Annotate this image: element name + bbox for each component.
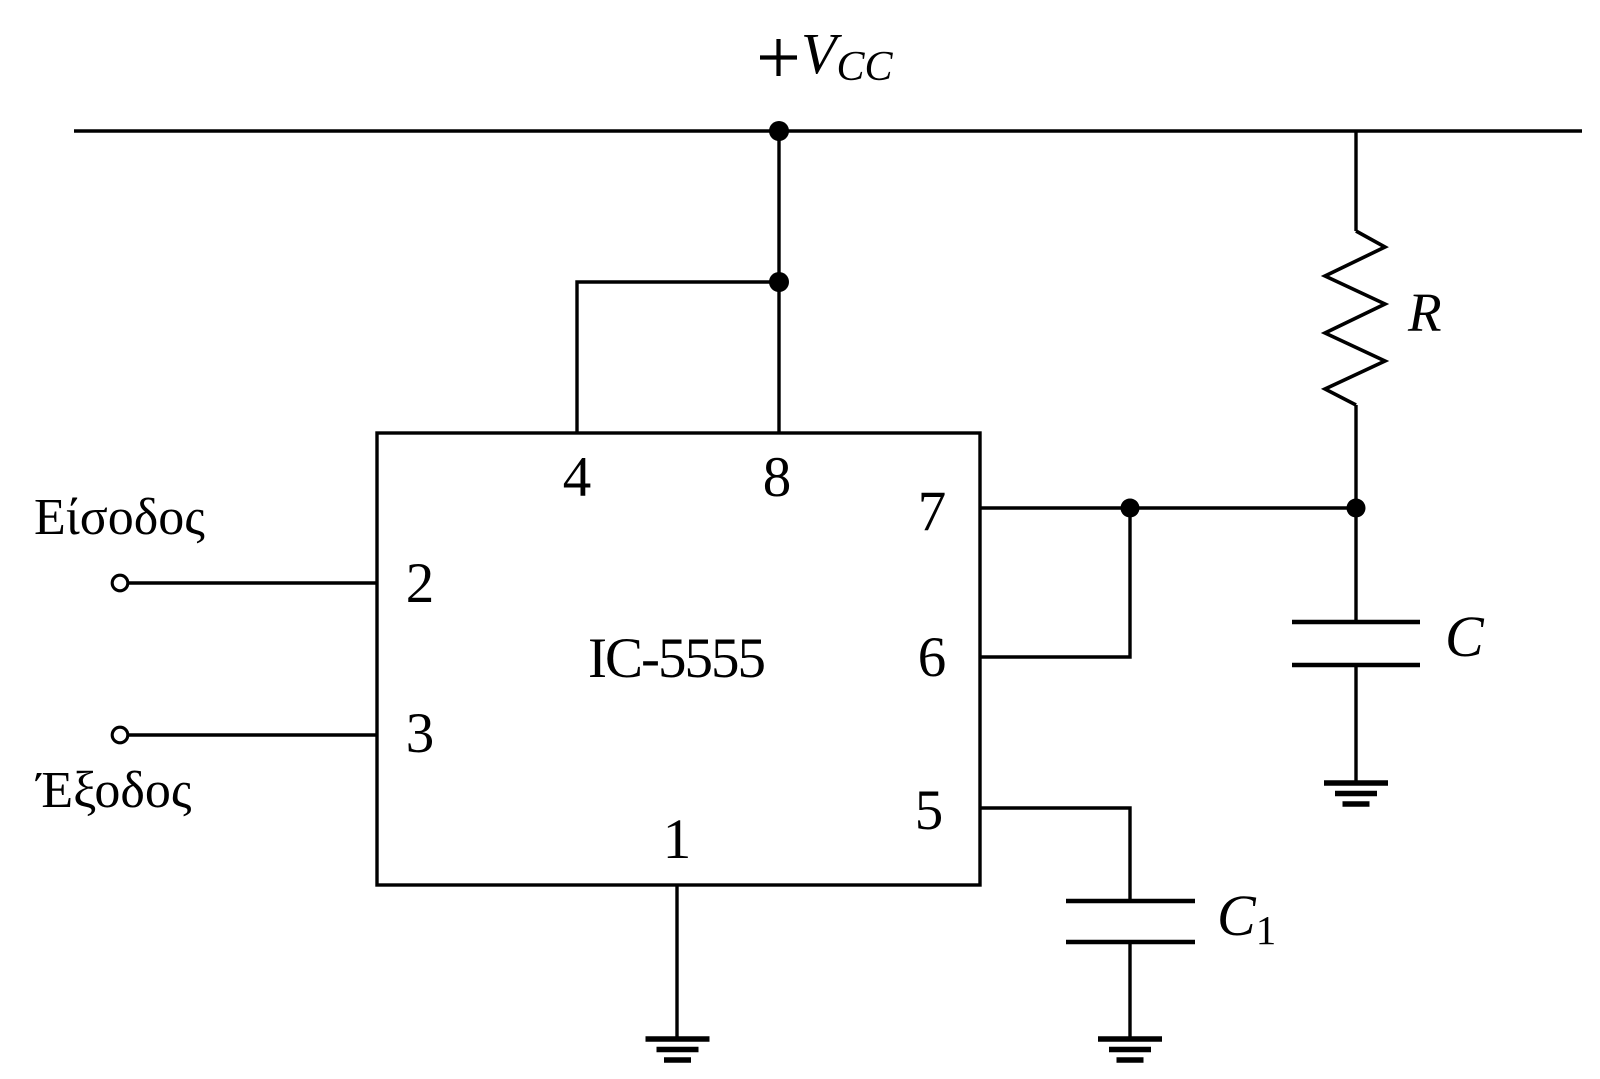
wire: capacitor C1 to ground: [1128, 942, 1131, 1039]
ground under C1: [1098, 1039, 1162, 1060]
label +VCC: [760, 39, 797, 76]
wire: pin 5 to capacitor C1: [980, 808, 1130, 901]
svg-text:7: 7: [918, 480, 947, 543]
wire: input to pin 2: [129, 581, 377, 584]
capacitor C1: [1066, 899, 1195, 904]
capacitor C: [1292, 620, 1420, 625]
wire: branch to pin 4: [577, 282, 779, 433]
node: junction on pin7 wire: [1121, 499, 1140, 518]
wire: pin 6 up to pin 7 wire: [980, 508, 1130, 657]
op-amp: IC U1 box: [377, 433, 980, 885]
wire: rail down to resistor R: [1354, 131, 1357, 231]
ground under C: [1324, 783, 1388, 804]
resistor R: [1325, 231, 1385, 405]
node: rail junction to pin 8: [769, 121, 789, 141]
wire: resistor to capacitor C: [1354, 405, 1357, 622]
wire: output to pin 3: [129, 733, 377, 736]
wire: capacitor C to ground: [1354, 665, 1357, 783]
svg-text:3: 3: [406, 702, 435, 765]
wire: +VCC power rail: [74, 129, 1582, 133]
node: RC junction: [1347, 499, 1366, 518]
svg-text:Έξοδος: Έξοδος: [35, 762, 192, 819]
svg-text:5: 5: [915, 779, 944, 842]
svg-text:R: R: [1407, 282, 1442, 343]
svg-text:4: 4: [563, 446, 592, 509]
svg-text:IC-5555: IC-5555: [588, 627, 764, 690]
svg-text:C: C: [1445, 604, 1485, 669]
svg-text:8: 8: [763, 446, 792, 509]
svg-text:Είσοδος: Είσοδος: [34, 489, 205, 546]
svg-text:1: 1: [663, 808, 692, 871]
terminal: input circle: [112, 575, 128, 591]
svg-text:2: 2: [406, 552, 435, 615]
wire: pin 7 to RC node: [980, 506, 1356, 509]
wire: pin 1 to ground: [675, 885, 678, 1039]
svg-text:6: 6: [918, 626, 947, 689]
node: branch junction to pin 4: [769, 272, 789, 292]
terminal: output circle: [112, 727, 128, 743]
wire: rail down to pin 8: [777, 131, 780, 433]
ground under pin 1: [646, 1039, 710, 1060]
